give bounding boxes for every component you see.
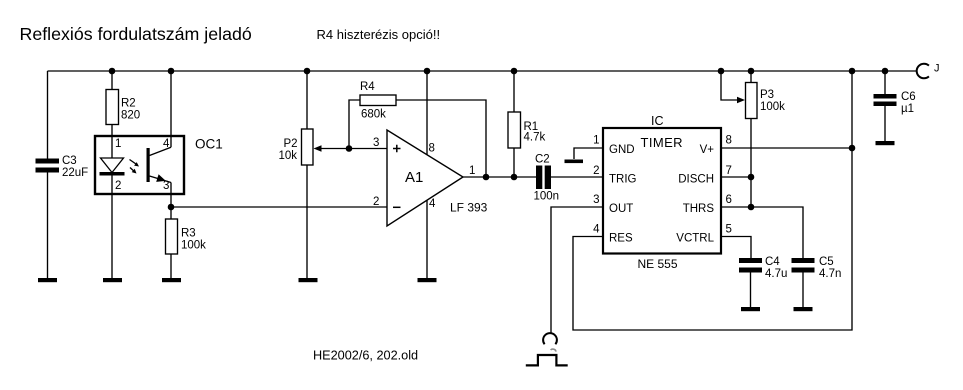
node output/R4 bbox=[483, 174, 490, 181]
svg-text:3: 3 bbox=[593, 194, 599, 206]
capacitor C2 bbox=[534, 154, 560, 203]
node pin3/R3 bbox=[168, 204, 175, 211]
svg-text:680k: 680k bbox=[361, 109, 386, 121]
node THRS/P3 bbox=[748, 204, 755, 211]
wire R1 bottom lead bbox=[513, 148, 515, 177]
svg-text:OUT: OUT bbox=[609, 203, 633, 215]
LED inside OC1 bbox=[100, 158, 125, 176]
wire P3 top lead bbox=[750, 71, 752, 83]
svg-text:V+: V+ bbox=[700, 144, 715, 156]
svg-text:100n: 100n bbox=[534, 191, 560, 203]
wire R4 left lead bbox=[349, 100, 360, 149]
ground (R3) bbox=[162, 278, 181, 282]
svg-text:8: 8 bbox=[429, 143, 435, 155]
wire C4 to ground bbox=[750, 273, 752, 308]
node rail-pin8 bbox=[424, 68, 431, 75]
wire P3 wiper from rail bbox=[721, 71, 737, 100]
node DISCH/P3 bbox=[748, 174, 755, 181]
wire pin5 VCTRL to C4 bbox=[721, 237, 751, 259]
wire pin3 OUT to output connector bbox=[551, 207, 603, 333]
optocoupler OC1 bbox=[95, 136, 223, 194]
svg-text:22uF: 22uF bbox=[62, 167, 88, 179]
wire C6 to ground bbox=[884, 106, 886, 141]
svg-text:2: 2 bbox=[593, 165, 599, 177]
wire op-amp pin8 to rail bbox=[426, 71, 428, 155]
wire pin6 THRS to C5 bbox=[721, 207, 803, 258]
svg-text:4.7u: 4.7u bbox=[765, 268, 787, 280]
node rail-C6 bbox=[882, 68, 889, 75]
svg-text:820: 820 bbox=[121, 110, 140, 122]
svg-text:4: 4 bbox=[429, 198, 436, 210]
wire R2 top lead bbox=[111, 71, 113, 90]
ground (C3) bbox=[38, 278, 57, 282]
wire P2 wiper to op-amp + input bbox=[320, 148, 387, 150]
svg-text:NE 555: NE 555 bbox=[638, 257, 678, 271]
svg-text:R2: R2 bbox=[121, 98, 136, 110]
wire OC1 pin4 to rail bbox=[170, 71, 172, 147]
svg-text:IC: IC bbox=[651, 114, 664, 128]
node rail-P2 bbox=[304, 68, 311, 75]
wire C5 to ground bbox=[802, 273, 804, 308]
svg-text:C3: C3 bbox=[62, 155, 77, 167]
svg-text:R4 hiszterézis opció!!: R4 hiszterézis opció!! bbox=[317, 27, 441, 42]
node V+/loop bbox=[849, 145, 856, 152]
wire P2 bottom to ground bbox=[306, 165, 308, 278]
capacitor C4 bbox=[739, 256, 787, 280]
node rail-OC1 pin4 bbox=[168, 68, 175, 75]
svg-text:RES: RES bbox=[609, 233, 633, 245]
wire R4 right lead to output node bbox=[396, 100, 486, 177]
wire op-amp output to C2 bbox=[463, 176, 536, 178]
connector output small mark bbox=[551, 349, 556, 352]
wire pin1 GND stub bbox=[574, 148, 603, 159]
wire top supply rail bbox=[48, 70, 918, 72]
ground (C5) bbox=[794, 307, 813, 311]
wire P2 top lead bbox=[306, 71, 308, 129]
wire OC1 pin3 down bbox=[170, 183, 172, 220]
node rail-P3 top bbox=[748, 68, 755, 75]
svg-text:1: 1 bbox=[115, 138, 121, 150]
svg-text:1: 1 bbox=[593, 135, 599, 147]
connector J bbox=[917, 63, 940, 79]
svg-text:4.7n: 4.7n bbox=[819, 268, 841, 280]
svg-text:A1: A1 bbox=[405, 169, 423, 186]
svg-text:1: 1 bbox=[469, 165, 475, 177]
svg-text:C4: C4 bbox=[765, 256, 780, 268]
svg-text:5: 5 bbox=[726, 224, 732, 236]
pulse waveform symbol bbox=[526, 355, 568, 365]
phototransistor inside OC1 bbox=[147, 147, 172, 182]
node wiper/R4 bbox=[346, 145, 353, 152]
svg-text:GND: GND bbox=[609, 144, 635, 156]
svg-text:TIMER: TIMER bbox=[641, 135, 683, 150]
wire op-amp pin4 to ground bbox=[426, 201, 428, 279]
wire left branch to C3 bbox=[47, 71, 49, 278]
capacitor C3 bbox=[36, 155, 89, 179]
svg-text:2: 2 bbox=[373, 196, 379, 208]
svg-text:6: 6 bbox=[726, 194, 732, 206]
svg-text:P3: P3 bbox=[760, 89, 774, 101]
svg-text:µ1: µ1 bbox=[901, 103, 914, 115]
svg-text:7: 7 bbox=[726, 165, 732, 177]
capacitor C6 bbox=[874, 71, 916, 115]
svg-text:C5: C5 bbox=[819, 256, 834, 268]
wire pin4 RES stub and loop to rail bbox=[573, 71, 852, 330]
ground (C4) bbox=[741, 307, 760, 311]
svg-text:LF 393: LF 393 bbox=[450, 201, 488, 215]
LED light arrows bbox=[130, 160, 140, 174]
svg-text:VCTRL: VCTRL bbox=[676, 233, 714, 245]
resistor R2 bbox=[106, 90, 140, 125]
wire C2 to TRIG pin2 bbox=[551, 176, 603, 178]
ground (OC1 pin2) bbox=[103, 278, 122, 282]
svg-text:HE2002/6, 202.old: HE2002/6, 202.old bbox=[313, 349, 418, 363]
svg-text:100k: 100k bbox=[181, 240, 206, 252]
op-amp A1 bbox=[373, 130, 488, 226]
svg-text:4: 4 bbox=[593, 224, 600, 236]
connector output bbox=[543, 333, 557, 344]
resistor R4 bbox=[360, 81, 396, 121]
svg-text:P2: P2 bbox=[284, 138, 298, 150]
svg-text:DISCH: DISCH bbox=[678, 174, 714, 186]
resistor R3 bbox=[166, 219, 207, 254]
svg-text:Reflexiós fordulatszám jeladó: Reflexiós fordulatszám jeladó bbox=[20, 24, 252, 44]
ground (555 pin1) bbox=[565, 160, 584, 164]
ground (C6) bbox=[876, 141, 895, 145]
wire node pin3 to op-amp inverting input bbox=[171, 206, 387, 208]
svg-text:OC1: OC1 bbox=[195, 137, 223, 152]
node rail-R1 bbox=[511, 68, 518, 75]
svg-text:THRS: THRS bbox=[683, 203, 715, 215]
IC timer NE555 bbox=[593, 114, 732, 271]
svg-text:8: 8 bbox=[726, 135, 732, 147]
svg-text:10k: 10k bbox=[279, 150, 298, 162]
svg-text:R4: R4 bbox=[360, 81, 375, 93]
node rail-loop bbox=[849, 68, 856, 75]
wire P3 bottom lead bbox=[750, 119, 752, 208]
svg-text:C6: C6 bbox=[901, 91, 916, 103]
resistor R1 bbox=[508, 112, 545, 148]
potentiometer P3 bbox=[737, 83, 785, 119]
svg-text:4.7k: 4.7k bbox=[524, 132, 546, 144]
svg-text:R3: R3 bbox=[181, 228, 196, 240]
wire R3 to ground bbox=[170, 254, 172, 278]
svg-text:C2: C2 bbox=[535, 154, 550, 166]
node rail-P3 wiper bbox=[718, 68, 725, 75]
wire pin8 V+ bbox=[721, 147, 852, 149]
svg-text:J: J bbox=[934, 63, 940, 75]
ground (A1 pin4) bbox=[418, 278, 437, 282]
svg-text:3: 3 bbox=[373, 137, 379, 149]
capacitor C5 bbox=[792, 256, 842, 280]
wire OC1 pin2 to ground bbox=[111, 176, 113, 279]
svg-text:100k: 100k bbox=[760, 101, 785, 113]
node output/R1 bbox=[511, 174, 518, 181]
wire R1 top lead bbox=[513, 71, 515, 112]
ground (P2) bbox=[299, 278, 318, 282]
wire R2 to OC1 pin1 bbox=[111, 125, 113, 159]
wire pin7 DISCH stub bbox=[721, 176, 751, 178]
node rail-R2 bbox=[109, 68, 116, 75]
svg-text:TRIG: TRIG bbox=[609, 174, 637, 186]
svg-text:2: 2 bbox=[115, 180, 121, 192]
potentiometer P2 bbox=[279, 129, 322, 165]
